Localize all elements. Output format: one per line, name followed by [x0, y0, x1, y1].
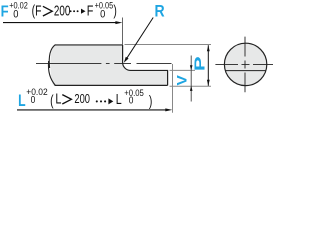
R leader line: [125, 18, 153, 61]
> symbol bottom: [62, 95, 71, 104]
svg-text:+0.05: +0.05: [124, 87, 144, 98]
svg-text:0: 0: [13, 9, 18, 21]
V arrow top (pointing down): [190, 65, 193, 70]
end view circle: [224, 43, 266, 85]
end view horizontal centerline: [215, 64, 273, 66]
svg-text:F: F: [1, 3, 9, 20]
P arrow top (pointing up): [207, 45, 210, 51]
end view flat chord: [225, 70, 265, 72]
svg-text:200: 200: [74, 93, 90, 107]
V dimension line: [190, 56, 192, 102]
svg-text:0: 0: [129, 95, 134, 107]
V top extension line: [170, 69, 196, 71]
end view vertical centerline: [244, 37, 246, 93]
F dimension arrow: [115, 21, 122, 24]
svg-text:L: L: [55, 91, 61, 107]
svg-text:R: R: [155, 2, 165, 20]
centerline of shaft: [36, 62, 172, 64]
svg-text:+0.02: +0.02: [9, 0, 28, 11]
svg-text:+0.02: +0.02: [26, 86, 47, 97]
svg-text:L: L: [18, 92, 25, 110]
svg-text:0: 0: [31, 94, 36, 106]
svg-text:0: 0: [100, 9, 105, 21]
P dimension line: [207, 45, 209, 86]
svg-text:200: 200: [54, 3, 71, 19]
svg-text:(: (: [50, 93, 54, 109]
dots bottom: [96, 100, 98, 102]
V arrow bottom (pointing up): [190, 86, 193, 91]
L dimension arrow: [165, 108, 172, 111]
svg-text:(F: (F: [32, 3, 42, 19]
shaft left break curve upper: [49, 45, 55, 68]
shaft top edge: [55, 44, 123, 46]
svg-text:F: F: [87, 3, 94, 19]
P top extension line: [125, 44, 212, 46]
L extension line: [172, 64, 174, 113]
shaft left break curve lower: [48, 61, 55, 86]
P arrow bottom (pointing down): [207, 80, 210, 86]
L dimension line: [17, 109, 166, 111]
svg-text:): ): [149, 94, 152, 110]
dots: [70, 10, 72, 12]
small arrow bottom: [108, 98, 113, 104]
F dimension line: [3, 22, 116, 24]
bottom extension line: [170, 85, 212, 87]
shaft bottom edge: [55, 84, 168, 86]
> symbol: [43, 6, 52, 16]
R leader arrowhead: [124, 57, 129, 63]
small arrow: [81, 9, 86, 14]
shaft side view fill: [50, 45, 167, 85]
F extension line: [122, 18, 124, 46]
svg-text:): ): [113, 3, 116, 19]
svg-text:L: L: [116, 91, 122, 107]
shaft step face with fillet R and flat edge, end face: [123, 45, 168, 85]
svg-text:P: P: [191, 56, 208, 71]
svg-text:V: V: [175, 75, 190, 86]
